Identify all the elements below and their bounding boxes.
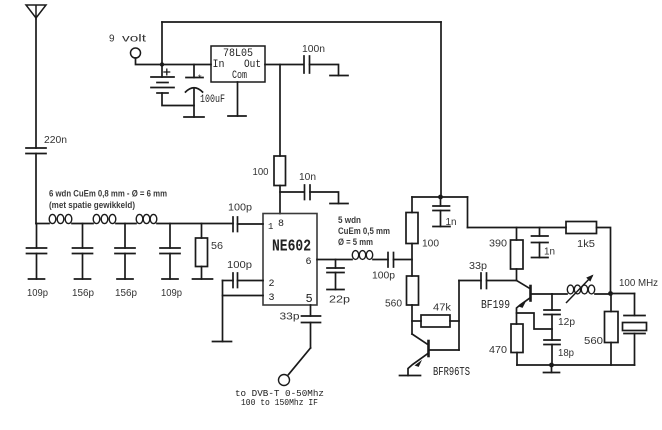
- battery B1: [151, 65, 194, 106]
- svg-text:156p: 156p: [72, 288, 94, 299]
- svg-text:1k5: 1k5: [577, 239, 595, 250]
- wire emitter jog: [517, 313, 553, 329]
- wire Out down to R100: [279, 65, 281, 157]
- wire top rail: [162, 21, 441, 23]
- svg-text:BFR96TS: BFR96TS: [433, 365, 470, 379]
- resistor 47k: [412, 315, 459, 327]
- antenna: [26, 5, 46, 19]
- wire: [72, 223, 93, 225]
- junction node dot: [438, 195, 443, 200]
- svg-text:(met spatie gewikkeld): (met spatie gewikkeld): [49, 200, 135, 210]
- wire: [136, 58, 162, 65]
- wire: [516, 353, 518, 366]
- ground: [327, 289, 344, 291]
- inductor L3 (6 wdn): [136, 214, 157, 223]
- wire: [487, 280, 517, 282]
- ground: [433, 226, 450, 228]
- svg-text:100: 100: [253, 167, 269, 178]
- wire 390 top: [516, 228, 518, 241]
- wire 220n to filter: [35, 154, 37, 224]
- capacitor 220n: [26, 148, 46, 154]
- wire to 10n: [280, 191, 304, 193]
- capacitor 100p lower: [223, 273, 264, 288]
- wire 33p line: [459, 280, 481, 282]
- wire: [597, 228, 611, 294]
- svg-text:22p: 22p: [329, 295, 351, 306]
- svg-text:56: 56: [211, 241, 223, 252]
- wire Out: [265, 64, 304, 66]
- capacitor 100uF: [186, 65, 204, 118]
- svg-text:560: 560: [584, 336, 603, 347]
- wire: [116, 223, 136, 225]
- ground: [193, 278, 213, 280]
- inductor 5 wdn: [352, 251, 372, 260]
- inductor variable osc: [567, 285, 594, 294]
- svg-text:100n: 100n: [302, 44, 325, 55]
- wire: [411, 305, 413, 334]
- svg-text:6: 6: [306, 257, 312, 268]
- wire diagonal to connector: [289, 348, 311, 375]
- wire supply branch: [412, 196, 468, 198]
- svg-text:100p: 100p: [228, 203, 252, 214]
- svg-text:In: In: [213, 59, 225, 71]
- svg-text:1: 1: [268, 222, 273, 232]
- svg-text:8: 8: [278, 219, 284, 230]
- svg-text:470: 470: [489, 345, 507, 356]
- arrow variable inductor: [567, 275, 594, 303]
- capacitor 1n first: [433, 197, 450, 227]
- resistor 100 osc: [406, 213, 418, 244]
- capacitor 1n second: [532, 228, 549, 258]
- wire: [611, 293, 635, 295]
- svg-text:33p: 33p: [280, 312, 301, 323]
- svg-text:2: 2: [269, 279, 275, 290]
- junction node dot: [549, 363, 554, 368]
- wire: [440, 22, 442, 197]
- wire pin6: [317, 259, 352, 261]
- capacitor 18p: [544, 340, 560, 365]
- svg-text:156p: 156p: [115, 288, 137, 299]
- ground: [330, 203, 348, 205]
- svg-text:9: 9: [109, 34, 115, 45]
- svg-text:Ø = 5 mm: Ø = 5 mm: [338, 237, 373, 247]
- svg-text:47k: 47k: [433, 303, 452, 314]
- wire: [310, 192, 339, 204]
- junction node dot: [608, 291, 613, 296]
- svg-text:CuEm 0,5 mm: CuEm 0,5 mm: [338, 226, 390, 236]
- svg-text:1n: 1n: [446, 217, 457, 228]
- resistor 1k5: [566, 222, 597, 234]
- wire filter input line: [36, 223, 49, 225]
- ground: [330, 75, 348, 77]
- wire: [516, 269, 518, 281]
- resistor 560 osc: [407, 276, 419, 305]
- wire antenna to 220n: [35, 18, 37, 148]
- capacitor C 109p #1: [27, 224, 47, 280]
- capacitor 100p output: [388, 253, 394, 268]
- IC NE602 box: [263, 214, 317, 306]
- ground: [228, 115, 246, 117]
- ground: [117, 278, 133, 280]
- ground: [544, 365, 560, 373]
- wire collector up: [458, 281, 460, 351]
- svg-text:100: 100: [422, 239, 439, 250]
- resistor 56: [196, 224, 208, 280]
- svg-text:NE602: NE602: [272, 238, 311, 257]
- wire pin5: [310, 305, 312, 316]
- capacitor C 156p #2: [115, 224, 135, 280]
- capacitor 33p osc: [481, 273, 487, 289]
- svg-text:BF199: BF199: [481, 298, 510, 312]
- wire: [552, 293, 567, 295]
- capacitor 33p: [302, 316, 321, 348]
- regulator 78L05: [211, 46, 265, 82]
- svg-text:1n: 1n: [544, 247, 555, 258]
- ground: [29, 278, 45, 280]
- resistor 470: [511, 324, 523, 353]
- svg-text:18p: 18p: [558, 348, 574, 359]
- svg-text:3: 3: [269, 293, 275, 304]
- svg-text:109p: 109p: [161, 288, 182, 299]
- capacitor 22p: [327, 260, 344, 290]
- wire: [411, 244, 413, 277]
- svg-text:volt: volt: [122, 34, 146, 45]
- svg-text:5 wdn: 5 wdn: [338, 215, 361, 225]
- wire: [157, 223, 233, 225]
- wire: [595, 293, 611, 295]
- svg-text:12p: 12p: [558, 317, 575, 328]
- wire Com to ground: [237, 82, 239, 116]
- svg-text:560: 560: [385, 299, 402, 310]
- inductor L2 (6 wdn): [93, 214, 116, 223]
- arrowhead BFR96TS emitter: [415, 360, 423, 367]
- capacitor C 109p #2: [160, 224, 180, 280]
- ground: [532, 257, 549, 259]
- svg-text:*: *: [197, 74, 202, 84]
- wire to regulator In: [162, 64, 211, 66]
- capacitor 10n: [305, 185, 311, 200]
- svg-text:Com: Com: [232, 70, 247, 82]
- wire: [394, 259, 413, 261]
- svg-text:100 to 150Mhz IF: 100 to 150Mhz IF: [241, 397, 318, 408]
- svg-text:6 wdn CuEm 0,8 mm - Ø = 6 mm: 6 wdn CuEm 0,8 mm - Ø = 6 mm: [49, 189, 167, 199]
- capacitor 100n: [304, 56, 310, 73]
- ground: [213, 341, 232, 343]
- transistor BFR96TS: [408, 334, 459, 376]
- wire: [467, 197, 469, 228]
- capacitor 100p upper: [233, 217, 263, 232]
- wire down to ground: [222, 281, 224, 342]
- label + battery: [163, 69, 170, 76]
- svg-text:100uF: 100uF: [200, 94, 225, 106]
- wire: [411, 197, 413, 213]
- inductor L1 (6 wdn): [49, 214, 72, 223]
- arrowhead BF199 emitter: [519, 301, 527, 308]
- wire supply rail: [468, 227, 567, 229]
- resistor 560 third: [605, 294, 619, 366]
- ground: [184, 116, 204, 118]
- junction node dot 9v: [160, 62, 164, 66]
- svg-text:100p: 100p: [227, 260, 252, 271]
- capacitor 12p: [544, 294, 560, 340]
- resistor 390: [511, 240, 524, 269]
- svg-text:100 MHz: 100 MHz: [619, 278, 658, 289]
- wire: [279, 186, 281, 214]
- connector 9 volt: [131, 48, 141, 58]
- wire: [373, 259, 388, 261]
- ground: [400, 375, 421, 377]
- wire pin3: [223, 295, 264, 297]
- crystal 100 MHz: [623, 294, 647, 366]
- connector IF out: [279, 375, 290, 386]
- svg-text:100p: 100p: [372, 271, 395, 282]
- transistor BF199: [517, 281, 553, 325]
- wire: [161, 22, 163, 65]
- svg-text:390: 390: [489, 239, 507, 250]
- svg-text:10n: 10n: [299, 172, 316, 183]
- svg-text:220n: 220n: [44, 135, 67, 146]
- svg-text:5: 5: [306, 292, 313, 306]
- ground: [75, 278, 91, 280]
- resistor 100: [274, 156, 286, 186]
- ground: [162, 278, 178, 280]
- capacitor C 156p #1: [73, 224, 93, 280]
- svg-text:109p: 109p: [27, 288, 48, 299]
- svg-text:33p: 33p: [469, 261, 487, 272]
- wire bottom rail: [517, 364, 635, 366]
- wire: [310, 65, 339, 76]
